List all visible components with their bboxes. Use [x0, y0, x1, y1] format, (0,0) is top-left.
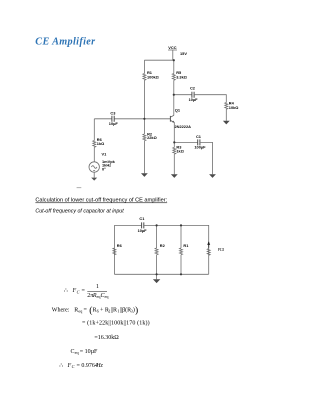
wire emitter down to node: [173, 122, 175, 142]
wire bottom: [114, 273, 208, 275]
capacitor C3: [112, 116, 114, 122]
svg-text:): ): [135, 305, 138, 316]
svg-text:10µF: 10µF: [109, 121, 119, 126]
equation Where Req: [52, 305, 138, 316]
wire R6 to V1: [93, 147, 95, 161]
svg-text:C2: C2: [190, 86, 196, 91]
junction node collector: [173, 94, 175, 96]
svg-text:1kΩ: 1kΩ: [176, 148, 183, 153]
svg-text:= 10µF: = 10µF: [80, 349, 98, 355]
wire top right segment: [144, 225, 209, 274]
wire C1 to ground right: [200, 142, 213, 174]
wire V1 to ground: [93, 172, 95, 177]
fraction bar: [87, 291, 107, 293]
wire base from C3 to Q1: [114, 118, 170, 120]
wire R4 to ground: [225, 109, 227, 121]
ground symbol (2): [153, 279, 160, 283]
resistor R3: [173, 147, 176, 154]
stray dash mark: [77, 187, 82, 189]
svg-text:Calculation of lower cut-off f: Calculation of lower cut-off frequency o…: [35, 198, 167, 204]
capacitor C2: [192, 92, 194, 98]
svg-text:3.3kΩ: 3.3kΩ: [176, 75, 187, 80]
wire R2 branch (2): [156, 225, 158, 248]
ground under R2: [141, 173, 148, 177]
wire input node down to R6: [93, 119, 95, 141]
svg-text:R3: R3: [218, 247, 224, 253]
svg-text:R1: R1: [183, 243, 189, 248]
svg-text:C3: C3: [110, 111, 116, 116]
svg-text:eq: eq: [105, 294, 110, 299]
wire vcc to R5: [173, 60, 175, 73]
ground under R4: [223, 121, 230, 125]
svg-text:10µF: 10µF: [138, 228, 148, 233]
resistor R6: [93, 141, 96, 148]
svg-text:C: C: [77, 290, 80, 295]
resistor R5: [172, 74, 175, 81]
wire R3 to ground: [173, 154, 175, 174]
wire collector node to Q1: [173, 95, 175, 116]
capacitor C1: [198, 139, 200, 145]
equation Fc = 1/(2 pi Req Ceq): [64, 284, 109, 299]
svg-text:=16.30kΩ: =16.30kΩ: [94, 335, 119, 341]
wire emitter node to R3: [173, 142, 175, 147]
resistor R6 (2): [113, 248, 116, 255]
resistor R1: [143, 74, 146, 81]
svg-text:15V: 15V: [180, 51, 187, 56]
svg-text:100kΩ: 100kΩ: [147, 75, 159, 80]
svg-text:1: 1: [96, 284, 99, 290]
svg-text:R6: R6: [117, 243, 123, 248]
svg-text:C: C: [72, 364, 75, 369]
transistor Q1: [170, 115, 174, 122]
source V1 circle: [89, 162, 99, 172]
ground under R3: [171, 174, 178, 178]
svg-text:=: =: [84, 307, 88, 313]
capacitor C1 (2): [142, 222, 144, 228]
junction dot bottom R2 (2): [156, 273, 158, 275]
svg-text:2N2222A: 2N2222A: [175, 124, 192, 129]
svg-text:Cut-off frequency of capacitor: Cut-off frequency of capacitor at input: [35, 209, 124, 215]
svg-text:=: =: [82, 288, 86, 294]
junction node base: [143, 118, 145, 120]
svg-text:= 0.9764: = 0.9764: [77, 363, 98, 369]
svg-text:= (1k+22k||100k||170 (1k)): = (1k+22k||100k||170 (1k)): [82, 319, 150, 326]
V1 minus mark: [93, 169, 95, 171]
svg-text:0°: 0°: [102, 166, 106, 171]
resistor R4: [225, 103, 228, 110]
wire R1 branch (2): [180, 225, 182, 248]
svg-text:||R: ||R: [111, 307, 117, 313]
svg-text:CE Amplifier: CE Amplifier: [35, 37, 96, 48]
svg-text:C1: C1: [139, 216, 145, 221]
equation Ceq = 10uF: [71, 349, 99, 355]
svg-text:∴: ∴: [64, 288, 68, 294]
junction dot top R2 (2): [156, 224, 158, 226]
svg-text:10kΩ: 10kΩ: [229, 105, 239, 110]
wire R5 to collector node: [173, 80, 175, 95]
svg-text:C1: C1: [196, 134, 202, 139]
wire left rail lower: [143, 80, 145, 119]
svg-text:Hz: Hz: [95, 363, 103, 369]
wire R2 to ground: [143, 141, 145, 174]
wire C2 to R4 corner: [194, 95, 226, 103]
junction dot bottom R1 (2): [180, 273, 182, 275]
svg-text:V1: V1: [102, 151, 108, 156]
wire top left segment: [114, 225, 141, 274]
svg-text:Where:: Where:: [52, 307, 70, 313]
wire emitter node to C1: [174, 141, 197, 143]
resistor R2: [143, 134, 146, 141]
svg-text:6: 6: [97, 309, 99, 314]
junction node top: [173, 59, 175, 61]
ground under C1: [209, 174, 216, 178]
svg-text:10µF: 10µF: [189, 97, 199, 102]
resistor R3 (2): [207, 249, 210, 256]
current arrow on R3 (2): [208, 242, 210, 248]
ground stub (2): [156, 274, 158, 279]
VCC symbol: [168, 50, 177, 60]
wire top rail: [144, 59, 173, 61]
svg-text:22kΩ: 22kΩ: [147, 135, 157, 140]
wire collector out to C2: [174, 94, 192, 96]
svg-text:∴: ∴: [59, 363, 63, 369]
svg-text:||β(R: ||β(R: [120, 306, 131, 313]
svg-text:Q1: Q1: [175, 108, 181, 113]
svg-text:VCC: VCC: [168, 45, 176, 50]
wire R2 branch: [143, 119, 145, 134]
junction node emitter: [173, 141, 175, 143]
wire C3 left to input node: [94, 118, 112, 120]
Q1 emitter arrow: [172, 121, 174, 123]
svg-text:100µF: 100µF: [194, 145, 206, 150]
resistor R1 (2): [180, 248, 183, 255]
equation Fc = 0.9764Hz: [59, 363, 103, 369]
resistor R2 (2): [155, 248, 158, 255]
V1 sine: [91, 166, 97, 169]
junction dot top R1 (2): [180, 224, 182, 226]
svg-text:R2: R2: [160, 243, 166, 248]
ground under V1: [91, 178, 97, 181]
svg-text:1kΩ: 1kΩ: [97, 141, 104, 146]
wire left rail upper (R1 branch): [143, 60, 145, 73]
